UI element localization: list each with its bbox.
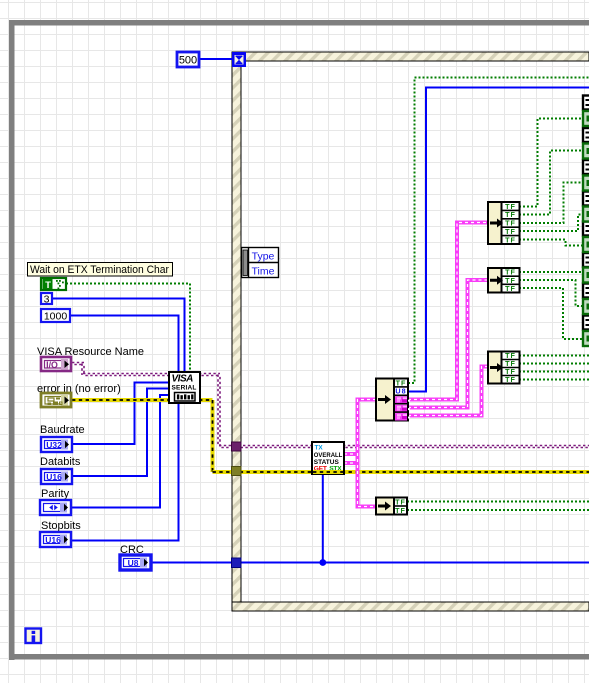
svg-text:1000: 1000: [44, 311, 68, 323]
svg-text:Wait on ETX Termination Char: Wait on ETX Termination Char: [30, 264, 169, 276]
svg-text:Baudrate: Baudrate: [40, 424, 85, 436]
svg-text:3: 3: [44, 294, 50, 306]
svg-text:TF: TF: [505, 235, 516, 244]
svg-text:TF: TF: [505, 375, 516, 384]
svg-text:SERIAL: SERIAL: [172, 385, 197, 392]
svg-text:OVERALL: OVERALL: [314, 452, 343, 459]
svg-text:Time: Time: [252, 266, 275, 278]
svg-text:500: 500: [179, 55, 197, 67]
svg-text:T: T: [45, 280, 51, 291]
svg-text:Type: Type: [252, 251, 275, 263]
svg-text:U8: U8: [128, 558, 139, 568]
svg-text:TF: TF: [395, 506, 406, 515]
svg-text:U16: U16: [45, 535, 61, 545]
svg-text:Stopbits: Stopbits: [41, 520, 81, 532]
svg-text:Databits: Databits: [40, 456, 81, 468]
svg-text:Parity: Parity: [41, 488, 70, 500]
svg-text:U8: U8: [395, 387, 406, 396]
svg-text:U32: U32: [46, 440, 62, 450]
svg-text:VISA: VISA: [172, 374, 194, 385]
svg-text:U16: U16: [46, 472, 62, 482]
svg-text:TX: TX: [315, 445, 324, 452]
svg-text:I/O: I/O: [46, 360, 58, 370]
svg-text:TF: TF: [505, 284, 516, 293]
